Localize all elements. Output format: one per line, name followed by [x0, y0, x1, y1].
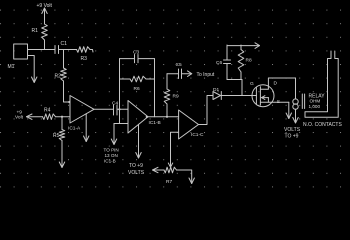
svg-text:D1: D1 — [213, 87, 219, 93]
feedback left wire — [119, 59, 121, 124]
ground arrow source — [286, 102, 291, 118]
resistor R9 — [164, 74, 170, 117]
wire to C5 — [167, 73, 179, 75]
svg-text:R4: R4 — [44, 108, 51, 114]
wire D1 out — [221, 95, 242, 97]
diode D1 — [213, 92, 221, 100]
wire R2 to IC1-A +in — [64, 81, 71, 102]
transistor Q1 body — [252, 85, 274, 107]
wire pot to IC1-C +in — [171, 132, 179, 160]
label C4 — [112, 101, 118, 107]
node R9 junction — [166, 116, 168, 118]
svg-text:S: S — [277, 99, 280, 105]
svg-text:IC1-A: IC1-A — [68, 126, 81, 132]
ground arrow relay — [293, 118, 298, 124]
node IC1-A +in — [68, 101, 70, 103]
svg-text:C1: C1 — [61, 41, 68, 47]
ground arrow mic — [32, 77, 37, 83]
svg-text:OHM: OHM — [310, 99, 321, 104]
microphone M1 — [14, 44, 28, 59]
wire gate — [242, 95, 257, 97]
resistor R2 — [61, 68, 67, 81]
label R2 — [55, 74, 62, 80]
svg-text:To Input: To Input — [197, 72, 215, 78]
svg-text:Volt: Volt — [15, 115, 24, 121]
label R3 — [81, 56, 88, 62]
label R9 — [173, 94, 179, 100]
wire IC1-C out — [199, 96, 214, 125]
svg-text:13 ON: 13 ON — [105, 153, 118, 158]
capacitor C6 — [224, 45, 231, 80]
label G — [250, 81, 254, 87]
label R1 — [32, 28, 39, 34]
resistor R8 — [238, 45, 244, 80]
svg-text:C4: C4 — [112, 101, 118, 107]
arrow to pin 13 — [111, 124, 116, 145]
svg-text:R2: R2 — [55, 74, 62, 80]
arrow R8 wiper — [255, 43, 260, 49]
ground arrow R7 — [189, 178, 194, 184]
wire C5 out — [182, 73, 192, 75]
power arrow up — [42, 8, 47, 24]
svg-text:N.O. CONTACTS: N.O. CONTACTS — [303, 122, 342, 128]
label RELAY — [309, 94, 326, 100]
svg-text:1,000: 1,000 — [309, 104, 321, 109]
label N.O. CONTACTS — [303, 122, 342, 128]
op-amp IC1-B — [128, 101, 148, 134]
arrow IC1-B to +9V — [136, 124, 141, 158]
svg-text:D: D — [274, 81, 278, 87]
wire IC1-B -in jog — [114, 123, 128, 125]
bottom rail C6 R8 — [227, 79, 242, 81]
ground arrow R5 — [59, 141, 64, 168]
svg-text:M1: M1 — [8, 64, 15, 70]
svg-text:R5: R5 — [53, 133, 60, 139]
svg-text:R6: R6 — [134, 86, 140, 92]
top rail R8 — [227, 45, 255, 47]
label IC1-A — [68, 126, 81, 132]
wire up to R8 — [241, 80, 243, 96]
svg-text:IC1-C: IC1-C — [191, 132, 204, 138]
chevron to input — [188, 71, 192, 77]
drain rail — [269, 77, 296, 79]
resistor R5 — [59, 117, 65, 141]
resistor R6 — [130, 76, 146, 82]
resistor R4 — [43, 114, 56, 120]
wire IC1-B out — [148, 116, 179, 118]
svg-text:TO +9: TO +9 — [285, 134, 299, 140]
svg-text:C5: C5 — [176, 62, 182, 68]
label C1 — [61, 41, 68, 47]
label to pin 13 — [104, 148, 119, 164]
wire mic to C1 — [28, 49, 55, 51]
transistor Q1 channel bar — [259, 87, 261, 105]
resistor R3 — [77, 47, 94, 53]
label 1000 — [309, 104, 321, 109]
resistor R1 — [42, 24, 48, 50]
wire mic lead 2 — [28, 56, 35, 83]
arrow to +9 volt left — [27, 114, 43, 119]
label C6 — [216, 60, 222, 66]
transistor Q1 source stub — [260, 96, 288, 103]
ground arrow IC1-A — [84, 114, 89, 142]
label IC1-B — [149, 120, 161, 126]
wire C1 to R3 — [59, 49, 77, 51]
svg-text:G: G — [250, 81, 254, 87]
resistor R6 wire — [120, 78, 155, 80]
arrow R7 to +9V — [153, 167, 165, 172]
svg-text:R7: R7 — [166, 179, 172, 185]
power +9 Volt label top — [37, 3, 53, 9]
svg-text:R9: R9 — [173, 94, 179, 100]
svg-text:TO +9: TO +9 — [129, 163, 143, 169]
wire IC1-A out — [94, 108, 114, 110]
label S — [277, 99, 280, 105]
op-amp IC1-C — [179, 110, 199, 139]
label To Input — [197, 72, 215, 78]
potentiometer R7 — [164, 161, 177, 173]
label D — [274, 81, 278, 87]
node IC1-B out — [146, 116, 148, 118]
label D1 — [213, 87, 219, 93]
label R6 — [134, 86, 140, 92]
wire R7 right — [177, 170, 192, 184]
svg-text:TO PIN: TO PIN — [104, 148, 119, 153]
capacitor C1 — [55, 46, 59, 54]
svg-text:R3: R3 — [81, 56, 88, 62]
relay coil lead top — [295, 78, 297, 99]
label OHM — [310, 99, 321, 104]
label C3 — [133, 50, 139, 56]
label to +9 volts — [128, 163, 145, 176]
relay coil — [293, 99, 298, 109]
capacitor C5 — [179, 69, 182, 79]
label M1 — [8, 64, 15, 70]
wire C4 to IC1-B — [117, 108, 128, 110]
svg-text:IC1-B: IC1-B — [149, 120, 161, 126]
svg-text:IC1-B: IC1-B — [104, 159, 116, 164]
power +9 Volt label left — [15, 110, 24, 121]
label C5 — [176, 62, 182, 68]
relay coil lead bottom — [295, 109, 297, 122]
label R5 — [53, 133, 60, 139]
contacts plug — [305, 51, 338, 117]
capacitor C3 — [120, 55, 155, 63]
label R8 — [246, 58, 252, 64]
svg-text:R1: R1 — [32, 28, 39, 34]
transistor Q1 gate bar — [255, 88, 257, 105]
node R5 junction — [61, 116, 63, 118]
op-amp IC1-A — [70, 96, 94, 124]
label volts to +9 — [284, 127, 301, 140]
transistor Q1 drain stub — [260, 78, 268, 89]
svg-text:C6: C6 — [216, 60, 222, 66]
node feedback junction — [118, 108, 120, 110]
label IC1-C — [191, 132, 204, 138]
svg-text:R8: R8 — [246, 58, 252, 64]
svg-text:VOLTS: VOLTS — [284, 127, 301, 133]
svg-text:VOLTS: VOLTS — [128, 170, 145, 176]
wire R4 to IC1-A -in — [56, 116, 71, 118]
label R7 — [166, 179, 172, 185]
feedback right wire — [154, 59, 156, 117]
capacitor C4 — [114, 105, 118, 115]
svg-text:C3: C3 — [133, 50, 139, 56]
node after C1 wire down — [63, 50, 65, 69]
relay core bars — [302, 94, 304, 109]
label R4 — [44, 108, 51, 114]
